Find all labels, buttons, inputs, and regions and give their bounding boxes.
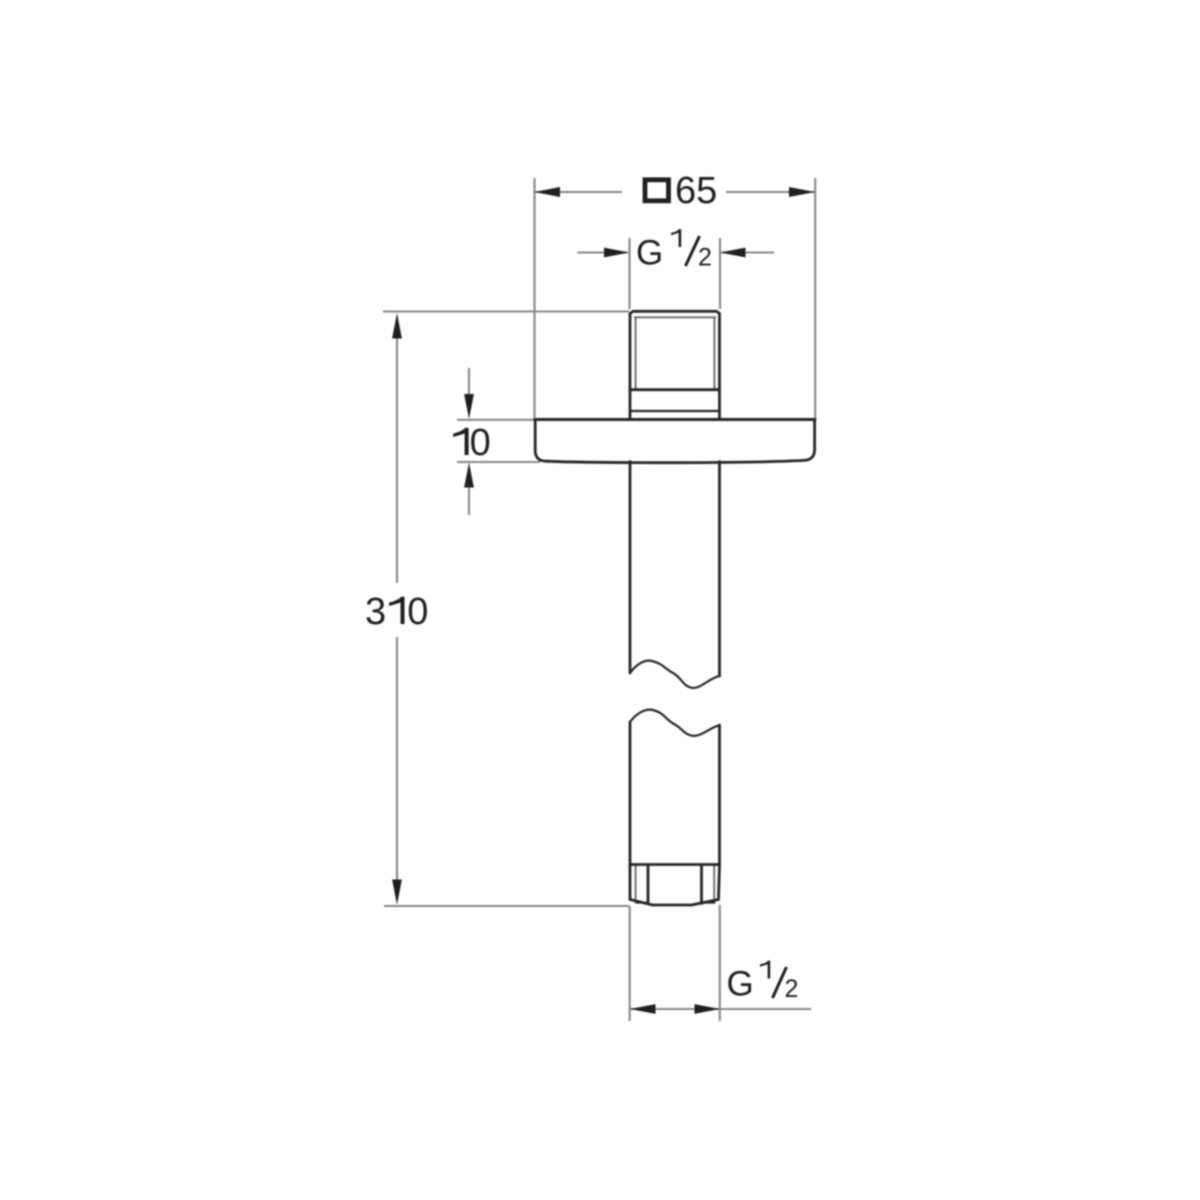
svg-text:65: 65	[675, 170, 717, 212]
svg-text:G: G	[636, 234, 663, 273]
svg-text:0: 0	[407, 591, 428, 633]
svg-text:2: 2	[698, 244, 712, 272]
svg-text:3: 3	[365, 591, 386, 633]
svg-text:2: 2	[785, 975, 799, 1003]
svg-text:0: 0	[470, 422, 491, 464]
svg-text:G: G	[727, 965, 754, 1004]
